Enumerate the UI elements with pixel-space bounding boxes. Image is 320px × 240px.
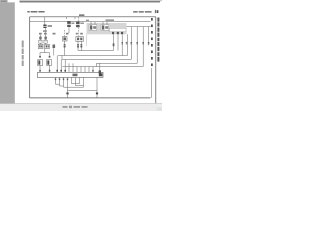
wire stub at top border (node B1) [66,17,68,19]
wire: R3/R4 pin stubs over J1 [91,23,107,25]
wire: horizontal net N3 [62,59,131,61]
wire: relay R3 pin 2 up to bus [94,22,96,25]
wire: drop to SW2 [49,53,51,56]
node label 2B [76,33,78,35]
wire: into J2 pin b [60,60,62,73]
connector tick J2 bottom d [67,78,68,80]
node label 1H [44,33,47,35]
connector C8f (pair) [148,42,150,44]
connector tick J2 top d [92,70,94,72]
wire: drop from N4 to connector C9 [99,63,101,70]
wire: ground drop left [67,94,69,98]
frame top border [30,16,156,18]
wire: N2 to N3 riser [61,56,63,60]
wire: ground merge m5 [64,86,84,88]
connector C8b (pair) [126,42,128,44]
connector tick on SW2 lead [49,56,51,58]
connector C3 [53,45,56,49]
wire: ground merge m4 [60,85,64,87]
connector C8e (pair) [142,42,144,44]
component U2 (box with X) [63,37,68,42]
wire: J2 bottom drop 5 [71,78,73,84]
wire: ground merge m3 [56,83,60,85]
wire: relay R3 pin up to bus [90,22,92,25]
fusible link FL1 [43,25,46,29]
connector box C2b [45,44,50,48]
relay R2 [76,21,80,27]
connector tick J2 top a [56,70,58,72]
page number mark [155,10,159,13]
connector tick on SW1 drop [39,70,41,72]
node label 2C [80,33,83,35]
wire: J2 bottom drop 6 [75,78,77,86]
wire: right vertical V1 [130,27,132,60]
scrollbar corner [157,107,162,111]
vertical section title "OVERALL ELECTRICAL WIRING DIAGRAM" right margin [157,18,159,62]
wire: SW1 to junction box J2 [39,66,41,73]
wire: into J2 pin f [76,67,78,73]
switch SW2 [47,60,52,66]
wire: into J2 pin d [68,63,70,72]
browser tab label text [1,1,7,2]
wire: into J2 pin c [64,60,66,73]
wire: J2 bottom drop 3 [63,78,65,88]
wire: into J2 pin h [84,67,86,73]
connector strip in J1 [110,28,127,32]
wire: J/B output 2 [117,34,119,50]
wire: column D dashed [78,17,80,37]
wire: J2 bottom drop 4 (to ground) [67,78,69,93]
ground G2 [96,92,98,94]
wire: drop to SW1 [39,53,41,56]
connector C4 (pair) [64,44,66,47]
label above bus near J1 [106,19,115,21]
fuse F1 [39,37,42,40]
connector tick J2 bottom c [63,78,64,80]
wire: merge below connector boxes [44,49,46,53]
wire: into J2 pin g [80,67,82,73]
wire: ground drop right [96,94,98,98]
connector tick J2 top b [60,70,62,72]
node label 1J [39,33,42,35]
wire: faint J/B left output [85,34,87,46]
wire: SW2 to junction box J2 [49,66,51,73]
connector tick J2 bottom a [55,78,56,80]
connector C8a (pair) [122,42,124,44]
wire: J/B output 4 [127,34,129,55]
wire: right vertical V4 [148,27,150,46]
page header text "1-1 LAND CRUISER" [27,11,44,13]
wire: J2 bottom drop 8 [83,78,85,88]
label for R2 [80,22,84,24]
wire: relay R4 pin 2 up to bus [106,22,108,25]
frame left border [29,17,31,98]
label for FL1 [48,25,52,27]
wire: right vertical V2 [136,27,138,64]
fuse F2 [44,37,47,40]
connector box C2a [38,44,43,48]
label for R1 [71,22,74,24]
connector box C1a [39,40,42,43]
connector tick J2 top c [64,70,66,72]
connector tick on SW2 drop [49,70,51,72]
connector C8c (pair) [131,42,133,44]
wire: right vertical V3 [142,27,144,67]
connector C5 (pair) [77,44,79,47]
viewer toolbar text [63,106,88,108]
connector pins on J1 strip [112,32,123,34]
wire color label W-B [43,30,47,32]
relay R4 [101,25,109,31]
junction block J1 (shaded) [87,23,127,34]
relay R1 [67,21,71,27]
wire: left column A vertical [40,35,42,45]
connector tick on SW1 lead [39,56,41,58]
wire: horizontal net N4 [97,62,138,64]
page header text "Overall Wiring Diagram" [133,11,151,13]
node label 1K [53,33,56,35]
wire: below relay R1 [68,27,70,33]
vertical watermark text left margin [22,41,24,67]
wire: U3 pin 1 down [77,42,79,51]
label inside J2 [73,74,78,77]
connector C7 on J/B output 1 [113,43,115,46]
wire: horizontal net N1 [78,50,114,52]
wire: into J2 pin e [72,63,74,72]
wire: J/B output 1 [113,34,115,50]
wire: split to switches SW1/SW2 [40,52,50,54]
connector tick J2 bottom b [59,78,60,80]
ground G1 [66,92,68,94]
pin label at J2 right end [99,73,103,76]
component U3 [76,37,83,42]
wire: column C lower [64,41,66,56]
wire: into J2 pin i [88,67,90,73]
wire: J/B output 3 [121,34,123,55]
wire: connector C3 drop [53,49,55,56]
wire: IG feed from J/B to right column [127,26,151,28]
wire: relay R4 pin up to bus [102,22,104,25]
wire: right edge vertical to ground bus [150,68,152,98]
wire: battery feed bus [30,21,151,23]
wire: left column B vertical [44,28,46,45]
title text above frame [79,14,84,16]
wire: ground link [68,90,98,92]
ground bus line (frame bottom) [30,97,151,99]
wire: ground merge m1 [72,83,80,85]
label above bus left of J1 [86,20,89,21]
relay R3 [89,25,97,31]
switch SW1 [38,60,43,66]
wire: horizontal net N5 [63,66,144,68]
wire: column C dashed upper [64,30,66,37]
frame right border [155,17,157,103]
wire: ground merge m2 [76,85,84,87]
wire: into J2 pin a [56,56,58,73]
wire stub at top border (node B2) [74,17,76,19]
connector C6 (pair) [80,44,82,47]
wire: J2 bottom drop 7 [79,78,81,84]
wire: into J2 pin j [92,67,94,73]
connector C8d (pair) [136,42,138,44]
wire: U3 pin 2 down [80,42,82,51]
dashed page-link column (connector to next sheet) [151,18,153,66]
wire: J2 bottom drop 1 [55,78,57,85]
wire: horizontal net N2 [58,55,128,57]
connector C9 [99,70,101,73]
connector box C1b [44,40,47,43]
wire: J2 bottom drop 2 [59,78,61,87]
junction box J2 (instrument panel) [38,72,104,77]
wire: N4 to N5 riser [96,63,98,66]
wire: frame to fusible link FL1 [44,17,46,25]
wire: J2 bottom drop 9 (to ground) [96,78,98,93]
node label 2A [66,33,69,35]
